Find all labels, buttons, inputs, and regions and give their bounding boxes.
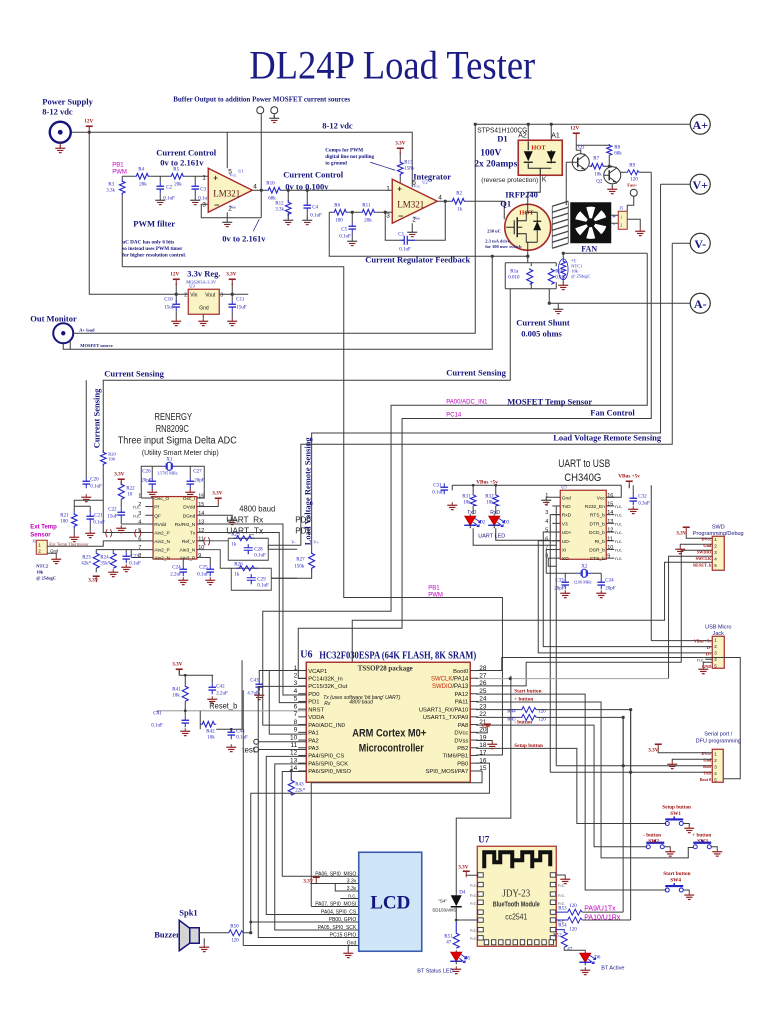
wire PB0 to LCD: [251, 921, 359, 923]
wire NTC1 top: [563, 253, 647, 258]
wire R22 to RVdd: [121, 481, 145, 524]
svg-text:Gnd: Gnd: [199, 305, 209, 311]
svg-text:Spk1: Spk1: [179, 907, 197, 917]
3.3V flag R23: [88, 568, 100, 583]
wire 12V rail down left: [89, 132, 188, 294]
svg-text:PA3: PA3: [308, 746, 319, 752]
svg-text:R52: R52: [553, 933, 562, 938]
wire q3 q2 cluster: [576, 139, 609, 154]
svg-text:Load Voltage Remote Sensing: Load Voltage Remote Sensing: [553, 432, 662, 442]
svg-text:VBus +5v: VBus +5v: [694, 638, 712, 643]
svg-text:+ button: + button: [514, 696, 533, 702]
wire PA8 minus button: [476, 725, 647, 847]
svg-text:Ain2_N: Ain2_N: [154, 539, 170, 545]
svg-text:R54: R54: [558, 923, 567, 928]
wire R31 to D2: [473, 506, 496, 515]
svg-text:UART_Rx: UART_Rx: [226, 515, 263, 524]
svg-text:RN8209C: RN8209C: [156, 424, 189, 435]
svg-text:12: 12: [607, 528, 613, 534]
svg-text:SWDIO/PA13: SWDIO/PA13: [432, 684, 469, 690]
wire q3 emitter to q2: [605, 155, 613, 166]
svg-text:C41: C41: [153, 711, 162, 716]
svg-text:3.3v: 3.3v: [347, 886, 357, 892]
svg-text:-: -: [613, 222, 615, 228]
regulator U3: [184, 283, 223, 314]
svg-text:MG6203A-3.3V: MG6203A-3.3V: [186, 279, 217, 284]
capacitor C26: [141, 469, 156, 488]
ground DVss: [487, 741, 497, 748]
ground C24: [178, 577, 188, 584]
svg-text:R4: R4: [138, 167, 144, 172]
svg-text:SWCLK: SWCLK: [696, 556, 712, 561]
svg-text:Out Monitor: Out Monitor: [30, 313, 77, 323]
svg-text:3: 3: [545, 510, 548, 516]
svg-text:Current Sensing: Current Sensing: [104, 368, 164, 378]
ground DGnd: [205, 515, 238, 524]
svg-text:PA12: PA12: [454, 692, 468, 698]
ground CH340 pin1: [541, 497, 552, 504]
svg-text:R12: R12: [275, 201, 284, 206]
svg-text:Pf: Pf: [154, 505, 159, 511]
svg-text:R53: R53: [558, 906, 567, 911]
svg-text:HC32F030ESPA (64K FLASH, 8K SR: HC32F030ESPA (64K FLASH, 8K SRAM): [319, 650, 476, 661]
3.3V flag R13: [395, 140, 405, 154]
wire USART RX R44: [476, 710, 630, 920]
capacitor C1 horizontal: [398, 232, 415, 252]
capacitor C21: [86, 512, 105, 525]
wire J1 pin1: [47, 541, 145, 546]
wires Ain2 second pair: [96, 550, 145, 558]
LED D2: [464, 514, 486, 528]
svg-text:"S4": "S4": [438, 898, 447, 903]
svg-text:10k: 10k: [207, 735, 215, 740]
svg-text:3.3V: 3.3V: [172, 661, 182, 667]
svg-text:n.c.: n.c.: [558, 900, 564, 905]
svg-text:0.010: 0.010: [508, 275, 520, 280]
wire 8-12vdc rail: [70, 132, 412, 187]
SWD pin wires: [352, 533, 712, 711]
grey NRST wire: [157, 710, 352, 711]
ground NTC1: [558, 282, 568, 289]
svg-text:0v to 2.161v: 0v to 2.161v: [160, 157, 204, 167]
svg-text:PA07, SPI0_MOSI: PA07, SPI0_MOSI: [315, 901, 356, 907]
svg-text:20k: 20k: [174, 182, 182, 187]
svg-text:–: –: [398, 210, 403, 220]
svg-text:R1b: R1b: [555, 269, 564, 274]
buffer output connector 2: [271, 107, 278, 114]
svg-text:6: 6: [545, 536, 548, 542]
diode pair D1 block: [518, 132, 562, 183]
wire q3 base: [566, 162, 592, 166]
svg-text:6: 6: [294, 703, 298, 710]
ground C21: [85, 530, 95, 537]
svg-text:R31: R31: [462, 494, 471, 499]
svg-text:U6: U6: [300, 649, 312, 660]
svg-text:C24: C24: [172, 565, 181, 570]
svg-text:R24: R24: [100, 555, 109, 560]
svg-text:C42: C42: [216, 684, 225, 689]
svg-text:12V: 12V: [84, 118, 93, 124]
ground C10: [171, 318, 181, 325]
svg-text:120: 120: [538, 709, 546, 714]
out monitor connector: [53, 323, 73, 343]
svg-text:Vin: Vin: [190, 292, 197, 298]
wire TxD RxD to uC usart bus: [470, 540, 556, 772]
svg-text:8: 8: [138, 553, 141, 559]
svg-text:n.c.: n.c.: [615, 530, 622, 535]
svg-text:PB1: PB1: [428, 585, 440, 591]
3.3V flag DVdd: [197, 490, 223, 506]
svg-text:PWM: PWM: [428, 592, 443, 598]
resistor R3: [106, 179, 125, 195]
wire buffer circle to op1 out: [260, 114, 262, 190]
svg-text:12: 12: [290, 750, 298, 757]
svg-text:PD0: PD0: [308, 692, 319, 698]
svg-text:Fan+: Fan+: [627, 182, 638, 187]
ground SW3: [711, 847, 722, 856]
ground C34: [596, 590, 606, 597]
capacitor C44: [227, 728, 248, 740]
ground C33: [560, 590, 570, 597]
wire op2 output to gate: [437, 201, 504, 219]
svg-text:C26: C26: [142, 469, 151, 474]
svg-text:Buzzer: Buzzer: [154, 929, 180, 939]
wire PB2 setup button: [476, 748, 666, 823]
resistor R10: [266, 181, 282, 201]
wire op2 vee: [411, 223, 413, 229]
capacitor C33: [554, 578, 569, 591]
svg-text:n.c.: n.c.: [133, 504, 140, 509]
svg-text:C43: C43: [250, 678, 259, 683]
wire DVss: [476, 740, 492, 743]
svg-text:Power Supply: Power Supply: [42, 96, 93, 106]
svg-text:C25: C25: [199, 565, 208, 570]
svg-text:(reverse protection): (reverse protection): [481, 177, 538, 184]
svg-text:A+: A+: [692, 118, 708, 132]
button SW3 plus: [692, 832, 711, 849]
ground C22: [116, 525, 126, 532]
svg-text:+: +: [397, 184, 402, 193]
svg-text:5: 5: [294, 696, 298, 703]
svg-text:to ground: to ground: [325, 160, 347, 166]
svg-text:Serial port /: Serial port /: [704, 731, 733, 737]
thermistor NTC1: [558, 258, 590, 280]
svg-text:PA1: PA1: [308, 731, 319, 737]
svg-text:n.c.: n.c.: [470, 927, 476, 932]
resistor R43: [288, 771, 306, 796]
svg-text:8-12 vdc: 8-12 vdc: [322, 120, 353, 130]
wire D1 anode A2: [527, 124, 529, 141]
svg-text:10k: 10k: [594, 172, 602, 177]
svg-text:150k: 150k: [294, 564, 305, 569]
speaker Spk1: [154, 907, 199, 951]
svg-text:HOT: HOT: [531, 144, 546, 151]
ground op1 vee: [222, 219, 232, 226]
svg-text:Ext Temp: Ext Temp: [30, 524, 57, 530]
connector J1 ext temp: [36, 540, 47, 554]
resistor R21: [60, 512, 77, 528]
svg-text:Programming/Debug: Programming/Debug: [693, 531, 744, 537]
ground J5: [635, 228, 645, 235]
wire MOSFET temp sensor: [263, 253, 648, 725]
svg-text:Gnd: Gnd: [703, 543, 712, 548]
svg-text:0.1uF: 0.1uF: [129, 561, 141, 566]
12V flag C10: [170, 271, 180, 285]
svg-text:V-: V-: [694, 237, 706, 251]
svg-text:n.c.: n.c.: [348, 894, 356, 900]
wire UART_Tx: [205, 532, 307, 702]
svg-text:R21: R21: [60, 513, 69, 518]
svg-text:100: 100: [60, 519, 68, 524]
svg-text:15uF: 15uF: [164, 305, 175, 310]
svg-text:PB0: PB0: [457, 761, 468, 767]
ground C44: [226, 744, 236, 751]
svg-text:JDY-23: JDY-23: [502, 888, 530, 899]
svg-text:15: 15: [607, 501, 613, 507]
svg-text:VCAP1: VCAP1: [308, 669, 327, 675]
svg-text:8-12 vdc: 8-12 vdc: [42, 106, 73, 116]
svg-text:C34: C34: [605, 578, 614, 583]
svg-text:16: 16: [198, 494, 204, 500]
svg-text:Ain3_P: Ain3_P: [180, 555, 195, 561]
svg-text:3.3V: 3.3V: [226, 271, 236, 277]
svg-text:X2: X2: [581, 564, 588, 569]
wire C5 stub: [351, 212, 353, 238]
svg-text:U7: U7: [478, 834, 489, 844]
3.3V flag R22: [114, 471, 125, 485]
12V flag: [84, 118, 93, 132]
svg-text:3.3V: 3.3V: [114, 471, 124, 477]
svg-text:C5: C5: [341, 227, 347, 232]
svg-text:R6: R6: [334, 203, 340, 208]
wire op2 feedback C1: [385, 201, 445, 240]
svg-text:0.1uF: 0.1uF: [197, 572, 209, 577]
svg-text:R42: R42: [206, 729, 215, 734]
wire shunt R1a: [530, 263, 532, 289]
svg-text:PWM filter: PWM filter: [133, 218, 175, 228]
ground SW4: [683, 890, 694, 899]
svg-text:Ain2_N: Ain2_N: [154, 555, 170, 561]
svg-text:Ext Temp Thermistor: Ext Temp Thermistor: [49, 541, 89, 546]
svg-text:RI_b: RI_b: [595, 539, 605, 545]
svg-text:PA2: PA2: [308, 738, 319, 744]
svg-text:V-: V-: [291, 539, 296, 544]
antenna trace: [484, 852, 550, 868]
wire V+ terminal: [661, 183, 691, 185]
ground SW2: [664, 847, 675, 856]
svg-text:3.3V: 3.3V: [481, 724, 491, 729]
svg-text:0v to 2.161v: 0v to 2.161v: [222, 233, 266, 243]
svg-text:8: 8: [294, 719, 298, 726]
capacitor C22: [107, 499, 125, 519]
svg-text:C27: C27: [193, 469, 202, 474]
svg-text:DVcc: DVcc: [454, 731, 468, 737]
svg-text:Rx: Rx: [324, 701, 331, 707]
svg-text:PC15 GPIO: PC15 GPIO: [330, 932, 357, 938]
svg-text:BlueTooth Module: BlueTooth Module: [493, 901, 540, 908]
wire shunt R1b: [555, 263, 557, 289]
svg-text:R9: R9: [629, 163, 635, 168]
svg-text:9: 9: [607, 554, 610, 560]
op-amp U1 LM321: [202, 168, 257, 212]
svg-text:Ain2_P: Ain2_P: [154, 530, 169, 536]
ground buzzer: [199, 944, 209, 951]
svg-text:n.c.: n.c.: [470, 882, 476, 887]
svg-text:C29: C29: [257, 577, 266, 582]
resistor R12: [275, 200, 291, 216]
3.3V flag LCD: [303, 877, 320, 884]
svg-text:R1a: R1a: [510, 269, 519, 274]
svg-text:0.1uF: 0.1uF: [254, 553, 266, 558]
wire q2 collector R9: [621, 171, 652, 173]
svg-text:so instead uses PWM timer: so instead uses PWM timer: [122, 246, 183, 252]
ground C31: [447, 502, 457, 509]
resistor R1b: [548, 268, 567, 284]
svg-text:DL24P Load Tester: DL24P Load Tester: [249, 42, 535, 87]
ground C3: [190, 197, 200, 204]
svg-text:cc2541: cc2541: [505, 912, 527, 921]
wire D1 cathode to Q1 drain: [528, 175, 541, 204]
svg-text:RVdd: RVdd: [154, 522, 166, 528]
BT module JDY-23: [477, 846, 556, 946]
wire op1 vcc: [226, 132, 228, 168]
svg-text:2.3 mA drive: 2.3 mA drive: [485, 238, 510, 243]
svg-text:D-: D-: [707, 645, 712, 650]
svg-text:LM321: LM321: [213, 188, 240, 198]
svg-text:+: +: [213, 173, 218, 182]
svg-text:for 100 usec switch: for 100 usec switch: [485, 244, 522, 249]
svg-text:230 uC: 230 uC: [487, 228, 501, 233]
svg-text:Start button: Start button: [514, 688, 541, 694]
wire out monitor lower: [63, 344, 70, 350]
svg-text:TxD: TxD: [467, 510, 477, 516]
svg-text:20k: 20k: [139, 182, 147, 187]
resistor R22: [118, 483, 135, 499]
svg-text:Start button: Start button: [663, 871, 690, 877]
wire R42 to C44: [216, 660, 242, 732]
svg-text:R27: R27: [296, 557, 305, 562]
ground C4: [302, 217, 312, 224]
svg-text:XI: XI: [562, 547, 567, 553]
svg-text:PWM: PWM: [112, 169, 127, 175]
svg-text:n.c.: n.c.: [615, 504, 622, 509]
svg-text:0.1uF: 0.1uF: [339, 234, 351, 239]
svg-text:BT Status LED: BT Status LED: [417, 968, 453, 974]
ground C32: [628, 506, 638, 513]
resistor R24: [100, 552, 116, 568]
svg-text:PA10/U1Rx: PA10/U1Rx: [584, 914, 621, 921]
svg-text:R51: R51: [444, 934, 453, 939]
wire R12 C4 stubs: [288, 190, 307, 218]
wire MOSI: [311, 771, 482, 783]
svg-text:PB00, GPIO: PB00, GPIO: [329, 917, 357, 923]
ground SWD: [675, 546, 685, 553]
R25 filter loop: [205, 532, 298, 560]
wire C2 stub: [159, 176, 161, 197]
svg-text:13: 13: [198, 520, 204, 526]
svg-text:n.c.: n.c.: [470, 935, 476, 940]
wire R53 to net: [582, 912, 630, 920]
wire PB0: [251, 763, 490, 932]
wire op1 feedback: [201, 190, 261, 218]
svg-text:Fan Control: Fan Control: [590, 407, 635, 417]
svg-text:0.1uF: 0.1uF: [90, 484, 102, 489]
op-amp U2 LM321 integrator: [386, 179, 442, 223]
test points: [242, 739, 306, 754]
resistor R4: [134, 167, 150, 187]
svg-text:R22: R22: [126, 486, 135, 491]
ground A- rail: [553, 306, 563, 313]
svg-text:R26: R26: [234, 562, 243, 567]
svg-text:DVcc: DVcc: [701, 536, 711, 541]
svg-text:Buffer Output to addition Powe: Buffer Output to addition Power MOSFET c…: [173, 95, 350, 103]
terminal V+: [690, 174, 710, 194]
wire PA1: [269, 670, 306, 734]
ground R24: [108, 569, 118, 576]
ground D5: [451, 966, 461, 973]
ground R21: [69, 534, 79, 541]
VBus flag CH340: [606, 473, 651, 640]
connector J5: [612, 205, 627, 229]
wire A-: [549, 302, 690, 304]
grey SWCLK wire: [476, 678, 668, 680]
ground U3: [198, 318, 208, 325]
ground R12: [283, 217, 293, 224]
svg-text:UD-: UD-: [562, 539, 571, 545]
svg-text:HOT: HOT: [519, 209, 534, 216]
3.3V flag DVcc: [481, 724, 491, 730]
heatsink hatching: [552, 201, 568, 248]
svg-text:QF: QF: [154, 513, 161, 519]
wire D2 to TxD: [473, 506, 560, 545]
svg-text:R5: R5: [173, 167, 179, 172]
svg-text:13: 13: [607, 519, 613, 525]
capacitor C20: [82, 380, 102, 489]
svg-text:4: 4: [294, 688, 298, 695]
svg-text:DGnd: DGnd: [183, 513, 196, 519]
button SW2 minus: [643, 832, 664, 849]
junction dots: [88, 123, 611, 305]
svg-text:10k: 10k: [463, 500, 471, 505]
resistor R42: [200, 721, 216, 740]
capacitor C31: [432, 483, 448, 495]
svg-text:SW2: SW2: [648, 838, 659, 844]
svg-text:NRST: NRST: [308, 707, 324, 713]
svg-text:n.c.: n.c.: [615, 513, 622, 518]
ground C26: [147, 489, 157, 496]
svg-text:10: 10: [198, 545, 204, 551]
svg-text:R11: R11: [362, 203, 371, 208]
svg-text:Rx/Rst_N: Rx/Rst_N: [175, 522, 196, 528]
svg-text:3.3V: 3.3V: [212, 490, 222, 496]
svg-text:2: 2: [184, 292, 187, 298]
wire D3 to RxD: [496, 515, 561, 541]
svg-text:1k: 1k: [457, 207, 463, 212]
svg-text:11: 11: [607, 536, 613, 542]
wire LED rail: [452, 485, 621, 494]
Fan+ connector circle: [627, 182, 638, 196]
svg-text:TSSOP28 package: TSSOP28 package: [358, 663, 414, 672]
svg-text:0v to 0.100v: 0v to 0.100v: [285, 181, 329, 191]
DFU DVcc wire: [648, 744, 712, 753]
svg-text:2: 2: [294, 672, 298, 679]
svg-text:100V: 100V: [480, 148, 501, 158]
svg-text:Current Regulator Feedback: Current Regulator Feedback: [365, 254, 470, 264]
svg-text:3: 3: [220, 292, 223, 298]
svg-text:Reset_b: Reset_b: [209, 701, 238, 710]
svg-text:VDDA: VDDA: [308, 715, 324, 721]
svg-text:0.1uF: 0.1uF: [310, 213, 322, 218]
